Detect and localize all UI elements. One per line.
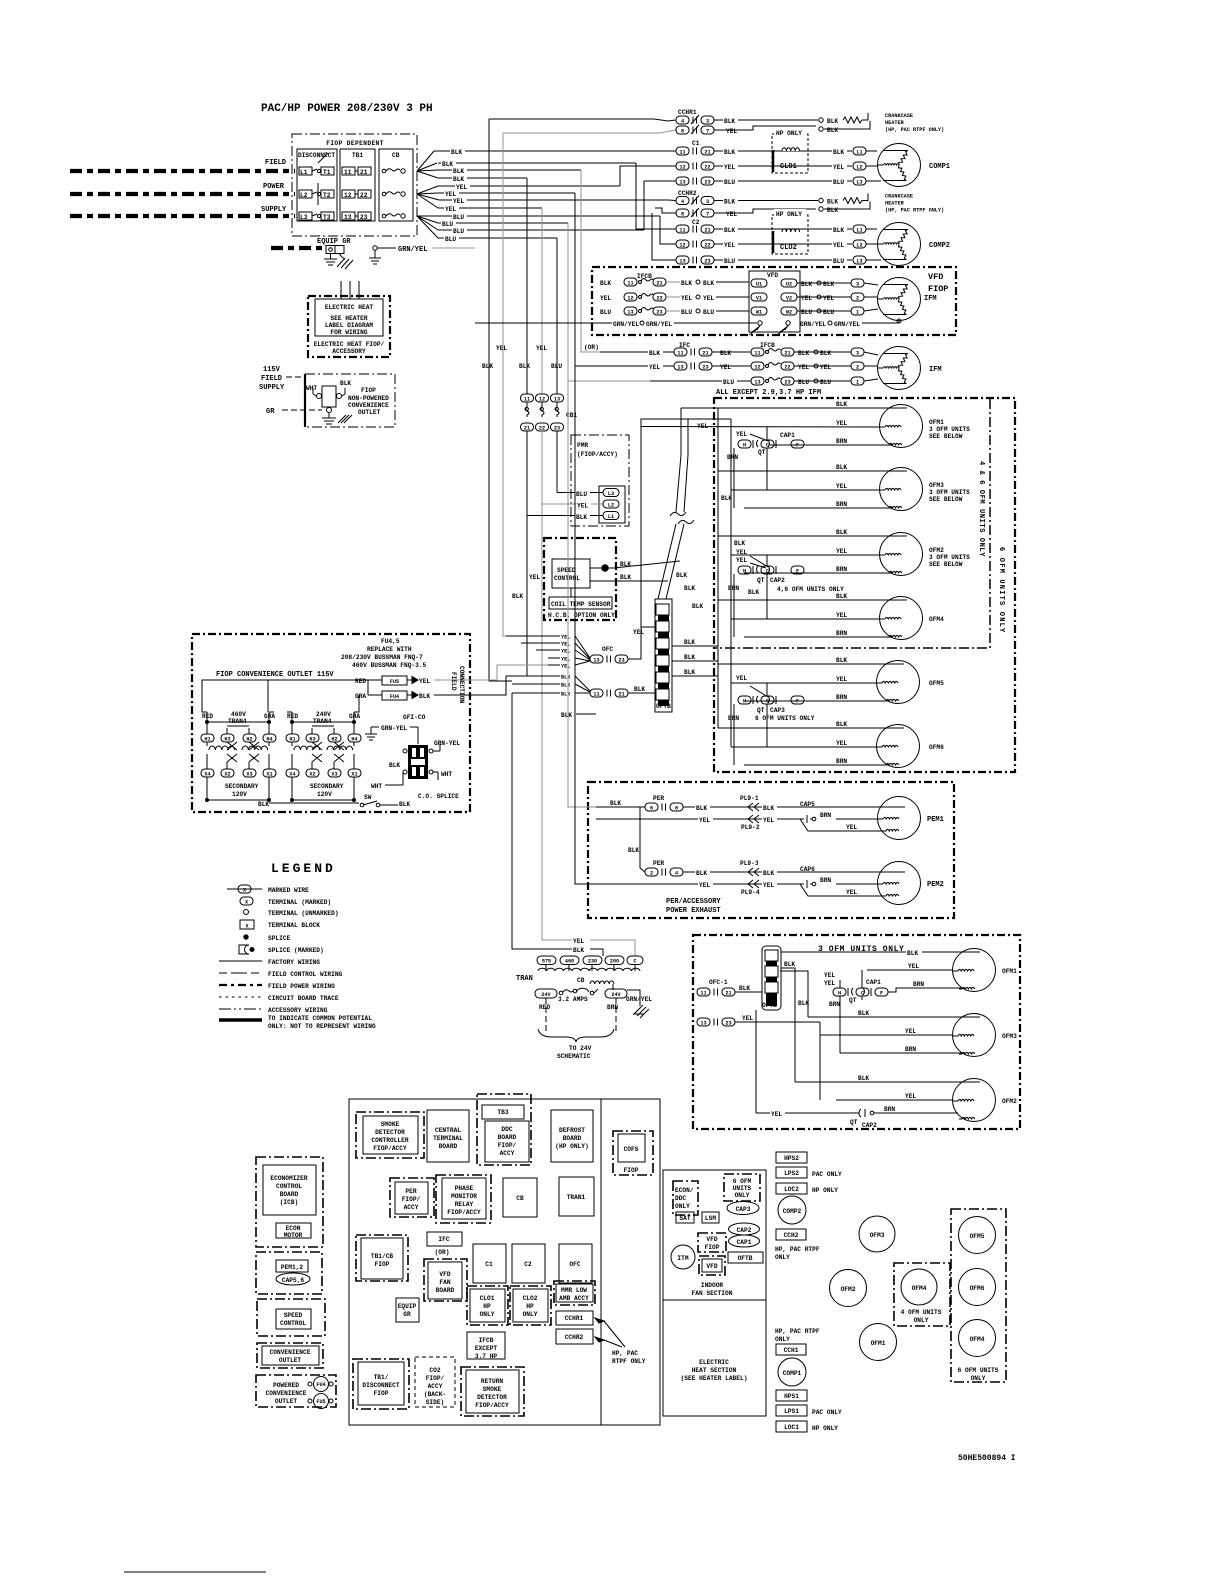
svg-text:BLK: BLK	[836, 721, 847, 728]
OFM1 circle	[860, 1324, 897, 1361]
svg-text:YEL: YEL	[573, 938, 584, 945]
svg-text:3: 3	[706, 118, 709, 124]
legend field power wiring	[219, 984, 262, 986]
svg-text:FIELD: FIELD	[450, 672, 457, 691]
svg-text:BLK: BLK	[573, 947, 584, 954]
svg-text:BLU: BLU	[600, 309, 611, 316]
svg-text:HEAT SECTION: HEAT SECTION	[692, 1367, 737, 1374]
LOC1	[776, 1421, 807, 1432]
svg-text:BLK: BLK	[833, 149, 844, 156]
svg-text:ACCY: ACCY	[500, 1150, 515, 1157]
svg-text:HP ONLY: HP ONLY	[776, 211, 802, 218]
svg-text:YEL: YEL	[736, 431, 747, 438]
svg-text:DDC: DDC	[675, 1195, 686, 1202]
svg-text:3.7 HP: 3.7 HP	[475, 1353, 498, 1360]
speed control inner box	[552, 559, 590, 588]
PER contact PEM1	[596, 806, 645, 808]
svg-text:SECONDARY: SECONDARY	[225, 783, 259, 790]
TB1 box	[340, 149, 375, 221]
svg-text:RED: RED	[539, 1004, 550, 1011]
wire row BLU 230	[438, 229, 644, 231]
svg-text:BLK: BLK	[453, 168, 464, 175]
wire YEL 208 to CCHR2-8	[655, 208, 676, 213]
svg-text:115V: 115V	[263, 366, 281, 374]
svg-text:HP, PAC RTPF: HP, PAC RTPF	[775, 1246, 820, 1253]
CAP1 oval	[729, 1235, 760, 1247]
wire row BLU 238	[438, 237, 557, 239]
VFD FIOP dashed	[698, 1233, 726, 1252]
CB poles	[382, 169, 405, 218]
svg-text:MMR LOW: MMR LOW	[561, 1287, 587, 1294]
svg-text:YEL: YEL	[600, 295, 611, 302]
wire row BLK 170	[438, 169, 581, 171]
svg-text:QT: QT	[757, 707, 765, 714]
svg-text:BLK: BLK	[820, 350, 831, 357]
svg-text:FIOP: FIOP	[705, 1244, 720, 1251]
primary winding coil	[538, 968, 640, 971]
svg-text:BLK: BLK	[399, 801, 410, 808]
svg-text:BLU: BLU	[576, 491, 587, 498]
svg-text:TB1/: TB1/	[374, 1374, 389, 1381]
svg-text:H: H	[838, 990, 841, 996]
svg-text:PAC ONLY: PAC ONLY	[812, 1171, 842, 1178]
fan motor OFM3-3	[953, 1014, 996, 1057]
wire 22 down to L2 and below	[542, 431, 572, 940]
FIOP convenience outlet dashed box	[192, 634, 470, 812]
svg-text:SPLICE: SPLICE	[268, 935, 291, 942]
wire row BLK 163	[438, 162, 636, 164]
svg-text:BLK: BLK	[610, 800, 621, 807]
svg-text:U2: U2	[786, 281, 792, 287]
svg-text:12: 12	[679, 164, 685, 170]
svg-text:POWERED: POWERED	[273, 1382, 299, 1389]
wire buses in OFM box	[717, 408, 719, 728]
fan motor OFM5	[877, 661, 920, 704]
speed control dashed box	[257, 1299, 325, 1336]
svg-text:FOR WIRING: FOR WIRING	[330, 329, 367, 336]
svg-text:ECONOMIZER: ECONOMIZER	[270, 1175, 307, 1182]
svg-text:TRAN: TRAN	[516, 975, 533, 983]
svg-text:H1: H1	[289, 736, 295, 742]
svg-text:22: 22	[360, 192, 368, 199]
svg-text:RELAY: RELAY	[455, 1201, 474, 1208]
svg-text:23: 23	[554, 425, 560, 431]
svg-text:YEL: YEL	[561, 657, 570, 663]
wire v6 down to transformer BLK	[512, 693, 572, 949]
svg-text:INDOOR: INDOOR	[701, 1282, 724, 1289]
svg-text:YEL: YEL	[699, 882, 710, 889]
svg-text:EQUIP GR: EQUIP GR	[317, 238, 351, 246]
svg-text:YEL: YEL	[736, 557, 747, 564]
svg-text:CCH2: CCH2	[784, 1232, 799, 1239]
svg-text:TERMINAL BLOCK: TERMINAL BLOCK	[268, 922, 320, 929]
svg-text:CAP1: CAP1	[780, 432, 795, 439]
transformer TRAN primary taps	[537, 956, 643, 965]
svg-text:13: 13	[677, 364, 683, 370]
svg-text:X4: X4	[204, 771, 210, 777]
defrost board	[551, 1110, 593, 1162]
svg-text:BLK: BLK	[823, 281, 834, 288]
svg-text:H3: H3	[224, 736, 230, 742]
svg-text:11: 11	[677, 350, 683, 356]
OFM3 circle	[859, 1216, 895, 1252]
svg-text:FIOP DEPENDENT: FIOP DEPENDENT	[326, 140, 384, 147]
DISCONNECT box	[297, 149, 337, 221]
svg-text:3: 3	[856, 281, 859, 287]
svg-text:BLK: BLK	[721, 495, 732, 502]
svg-text:COMP1: COMP1	[783, 1370, 802, 1377]
vertical v644 to C1 BLU row	[644, 181, 676, 230]
wire row BLU 216	[438, 215, 660, 217]
fuse FU5 circle	[308, 1399, 312, 1403]
terminal block OFTB2	[762, 946, 781, 1010]
wire row BLU 223	[438, 222, 568, 224]
svg-text:PEM1: PEM1	[927, 816, 944, 824]
legend factory wiring	[219, 960, 262, 962]
svg-text:BRN: BRN	[836, 694, 847, 701]
PEM dashed box	[256, 1252, 322, 1294]
svg-text:PL9-4: PL9-4	[741, 889, 760, 896]
svg-text:PHASE: PHASE	[455, 1185, 474, 1192]
svg-text:12: 12	[754, 364, 760, 370]
svg-text:BOARD: BOARD	[280, 1191, 299, 1198]
field power supply thick dashed lines	[70, 169, 295, 173]
fan motor OFM3	[880, 468, 923, 511]
IFC	[427, 1232, 462, 1246]
svg-text:BLU: BLU	[820, 379, 831, 386]
feed wires into box	[568, 381, 596, 807]
ITM circle	[671, 1245, 695, 1269]
svg-text:X2: X2	[224, 771, 230, 777]
svg-text:7: 7	[706, 211, 709, 217]
svg-text:OFM4: OFM4	[912, 1285, 927, 1292]
svg-text:YEL: YEL	[742, 1015, 753, 1022]
svg-text:C: C	[766, 442, 769, 448]
svg-text:21: 21	[702, 350, 708, 356]
svg-text:(FIOP/ACCY): (FIOP/ACCY)	[577, 451, 618, 458]
svg-text:BLK: BLK	[724, 118, 735, 125]
cable break risers	[658, 524, 684, 599]
svg-text:OFM1: OFM1	[871, 1340, 886, 1347]
svg-text:SEE BELOW: SEE BELOW	[929, 496, 963, 503]
svg-text:BLK: BLK	[561, 683, 571, 689]
6 OFM units only dashed	[724, 1174, 760, 1201]
svg-text:NON-POWERED: NON-POWERED	[348, 395, 389, 402]
svg-text:GRN/YEL: GRN/YEL	[613, 321, 639, 328]
vertical v660 to C2 YEL row	[660, 216, 676, 244]
svg-text:L1: L1	[300, 169, 308, 176]
svg-text:BLK: BLK	[482, 363, 493, 370]
svg-text:BLU: BLU	[801, 309, 812, 316]
svg-text:YEL: YEL	[908, 963, 919, 970]
svg-text:SIDE): SIDE)	[426, 1399, 445, 1406]
svg-text:YEL: YEL	[561, 635, 570, 641]
svg-text:C: C	[766, 698, 769, 704]
TB1/DISCONNECT FIOP	[353, 1359, 409, 1409]
svg-text:OFC: OFC	[569, 1261, 580, 1268]
svg-text:HP: HP	[526, 1303, 534, 1310]
svg-text:PER: PER	[653, 795, 664, 802]
svg-text:HEATER: HEATER	[885, 120, 905, 126]
svg-text:IFCB: IFCB	[479, 1337, 494, 1344]
svg-text:CRANKCASE: CRANKCASE	[885, 113, 913, 119]
capacitor CAP2 bottom	[756, 1112, 855, 1114]
legend marked wire	[227, 888, 262, 890]
svg-text:OFM3: OFM3	[1002, 1033, 1017, 1040]
svg-text:L2: L2	[856, 242, 862, 248]
svg-text:OFM5: OFM5	[970, 1233, 985, 1240]
svg-text:BLU: BLU	[442, 221, 453, 228]
svg-text:TB1/CB: TB1/CB	[371, 1253, 394, 1260]
svg-text:CLO1: CLO1	[480, 1295, 495, 1302]
svg-text:FIOP/: FIOP/	[402, 1196, 421, 1203]
svg-text:BLK: BLK	[836, 593, 847, 600]
GRN/YEL terminal	[373, 246, 377, 250]
svg-text:PL9-1: PL9-1	[740, 795, 759, 802]
svg-text:BLK: BLK	[696, 870, 707, 877]
svg-text:ACCY: ACCY	[428, 1383, 443, 1390]
svg-text:YEL: YEL	[419, 678, 430, 685]
svg-text:WHT: WHT	[306, 385, 317, 392]
fan motor OFM4	[880, 597, 923, 640]
svg-text:8: 8	[681, 128, 684, 134]
legend terminal unmarked	[244, 910, 249, 915]
svg-text:ONLY: ONLY	[971, 1375, 986, 1382]
svg-text:YEL: YEL	[771, 1111, 782, 1118]
LSM box	[702, 1212, 719, 1223]
svg-text:MOTOR: MOTOR	[284, 1232, 303, 1239]
svg-text:BRN: BRN	[836, 566, 847, 573]
svg-text:GR: GR	[266, 408, 275, 416]
svg-text:HP ONLY: HP ONLY	[776, 130, 802, 137]
svg-text:YEL: YEL	[763, 882, 774, 889]
svg-text:2: 2	[856, 364, 859, 370]
svg-text:YEL: YEL	[699, 817, 710, 824]
vertical v581 to IFC BLK row	[581, 170, 600, 352]
svg-text:CCHR2: CCHR2	[565, 1334, 584, 1341]
svg-text:BLU: BLU	[833, 179, 844, 186]
CCHR1 layout	[556, 1311, 593, 1325]
svg-text:FIOP CONVENIENCE OUTLET 115V: FIOP CONVENIENCE OUTLET 115V	[216, 671, 334, 679]
svg-text:TB3: TB3	[497, 1109, 508, 1116]
svg-text:6 OFM UNITS ONLY: 6 OFM UNITS ONLY	[997, 547, 1005, 633]
svg-text:BLK: BLK	[620, 574, 631, 581]
svg-text:FU4: FU4	[390, 694, 399, 700]
svg-text:H3: H3	[309, 736, 315, 742]
svg-text:C: C	[766, 568, 769, 574]
svg-text:YEL: YEL	[836, 676, 847, 683]
svg-text:SPEED: SPEED	[557, 567, 576, 574]
svg-text:OFTB: OFTB	[738, 1255, 753, 1262]
svg-text:PEM1,2: PEM1,2	[281, 1264, 304, 1271]
svg-text:HP ONLY: HP ONLY	[812, 1187, 838, 1194]
PER FIOP/ACCY	[390, 1178, 434, 1217]
svg-text:BRN: BRN	[836, 501, 847, 508]
svg-text:MARKED WIRE: MARKED WIRE	[268, 887, 309, 894]
svg-text:BLK: BLK	[724, 149, 735, 156]
svg-text:21: 21	[656, 280, 662, 286]
svg-text:ONLY: ONLY	[914, 1317, 929, 1324]
second ground	[339, 254, 345, 260]
svg-text:OFM2: OFM2	[929, 547, 944, 554]
svg-text:4: 4	[681, 199, 684, 205]
svg-text:C2: C2	[692, 219, 700, 226]
svg-text:DEFROST: DEFROST	[559, 1127, 585, 1134]
svg-text:BLK: BLK	[734, 540, 745, 547]
FIOP DEPENDENT dashed box	[292, 134, 417, 236]
svg-text:23: 23	[656, 309, 662, 315]
CO2 FIOP/ACCY backside	[415, 1357, 455, 1407]
svg-text:CRANKCASE: CRANKCASE	[885, 194, 913, 200]
svg-text:BRN: BRN	[884, 1106, 895, 1113]
OFM6 circle	[959, 1269, 996, 1306]
overload CLO2 HP ONLY box	[772, 215, 808, 254]
vertical v620 to C1 YEL row	[620, 166, 676, 186]
svg-text:RED: RED	[202, 713, 213, 720]
svg-text:4: 4	[681, 118, 684, 124]
svg-text:21: 21	[704, 149, 710, 155]
svg-text:YEL: YEL	[726, 128, 737, 135]
svg-text:C1: C1	[692, 140, 700, 147]
svg-text:11: 11	[524, 396, 530, 402]
svg-text:YEL: YEL	[633, 629, 644, 636]
svg-text:BRN: BRN	[836, 758, 847, 765]
svg-text:FIOP: FIOP	[624, 1167, 639, 1174]
C2	[512, 1244, 545, 1283]
svg-text:FU4,5: FU4,5	[381, 638, 400, 645]
arrows to HP PAC RTPF only	[595, 1318, 604, 1323]
svg-text:IFCB: IFCB	[760, 342, 775, 349]
svg-text:13: 13	[627, 309, 633, 315]
diag YEL row200 to CCHR2	[668, 199, 676, 202]
legend splice	[244, 935, 248, 939]
svg-text:COMP2: COMP2	[929, 242, 950, 250]
svg-text:V2: V2	[786, 295, 792, 301]
svg-text:SW: SW	[364, 794, 372, 801]
svg-text:W2: W2	[786, 309, 792, 315]
svg-text:CAP1: CAP1	[737, 1239, 752, 1246]
svg-text:C: C	[633, 959, 636, 965]
svg-text:YEL: YEL	[836, 612, 847, 619]
vertical v527 to CB1	[526, 178, 528, 394]
svg-text:BLU: BLU	[551, 363, 562, 370]
motor IFM VFD	[878, 278, 921, 321]
svg-text:YEL: YEL	[561, 649, 570, 655]
svg-text:YEL: YEL	[561, 642, 570, 648]
svg-text:BLU: BLU	[681, 309, 692, 316]
svg-text:YEL: YEL	[905, 1028, 916, 1035]
svg-text:13: 13	[754, 379, 760, 385]
svg-text:X1: X1	[351, 771, 357, 777]
svg-text:YEL: YEL	[703, 295, 714, 302]
LPS2	[776, 1167, 807, 1178]
equip gr layout	[396, 1298, 419, 1322]
svg-text:SEE BELOW: SEE BELOW	[929, 561, 963, 568]
svg-text:QT: QT	[849, 997, 857, 1004]
svg-text:LABEL DIAGRAM: LABEL DIAGRAM	[325, 322, 374, 329]
svg-text:YEL: YEL	[824, 972, 835, 979]
svg-text:H: H	[743, 568, 746, 574]
wire row YEL 193	[438, 192, 575, 194]
svg-text:CAP3: CAP3	[736, 1206, 751, 1213]
svg-text:24V: 24V	[611, 992, 621, 998]
svg-text:21: 21	[704, 227, 710, 233]
svg-text:FIOP: FIOP	[375, 1261, 390, 1268]
svg-text:13: 13	[679, 179, 685, 185]
svg-text:6 OFM UNITS: 6 OFM UNITS	[958, 1367, 999, 1374]
svg-text:PL9-3: PL9-3	[740, 860, 759, 867]
svg-text:(HP ONLY): (HP ONLY)	[555, 1143, 588, 1150]
svg-text:UNITS: UNITS	[733, 1185, 752, 1192]
svg-text:X1: X1	[266, 771, 272, 777]
TB3	[477, 1094, 531, 1165]
svg-text:BLK: BLK	[512, 593, 523, 600]
svg-text:23: 23	[618, 657, 624, 663]
svg-text:BLK: BLK	[827, 127, 838, 134]
svg-text:CONVENIENCE: CONVENIENCE	[348, 402, 389, 409]
svg-text:BLK: BLK	[801, 281, 812, 288]
outlet receptacle	[322, 386, 336, 407]
svg-text:FAN: FAN	[439, 1279, 450, 1286]
svg-text:BLK: BLK	[451, 149, 462, 156]
svg-text:BLU: BLU	[724, 258, 735, 265]
motor COMP1	[878, 144, 921, 187]
svg-text:ACCESSORY: ACCESSORY	[332, 348, 366, 355]
svg-text:7: 7	[706, 128, 709, 134]
svg-text:YEL: YEL	[445, 206, 456, 213]
svg-text:(OR): (OR)	[435, 1249, 450, 1256]
svg-text:460: 460	[565, 959, 574, 965]
breaker CB1	[521, 394, 534, 402]
CAP3 oval	[727, 1202, 759, 1215]
svg-text:YEL: YEL	[798, 364, 809, 371]
indoor fan section box	[663, 1170, 766, 1416]
svg-text:DISCONNECT: DISCONNECT	[362, 1382, 399, 1389]
svg-text:BLK: BLK	[763, 870, 774, 877]
svg-text:H4: H4	[351, 736, 357, 742]
L1 T1 terminals	[299, 167, 334, 176]
svg-text:SUPPLY: SUPPLY	[261, 206, 287, 214]
svg-text:FIOP: FIOP	[928, 284, 948, 294]
svg-text:ELECTRIC HEAT: ELECTRIC HEAT	[325, 304, 374, 311]
svg-text:YEL: YEL	[577, 503, 588, 510]
svg-text:OFM6: OFM6	[929, 744, 944, 751]
CCH1	[776, 1344, 806, 1355]
svg-text:FIOP: FIOP	[374, 1390, 389, 1397]
svg-text:CAP5: CAP5	[800, 801, 815, 808]
legend terminal block	[240, 920, 254, 929]
svg-text:ONLY: ONLY	[735, 1192, 750, 1199]
svg-text:23: 23	[704, 258, 710, 264]
svg-text:CLO1: CLO1	[780, 163, 797, 171]
vertical v636 to C2 BLK row	[636, 163, 676, 229]
svg-text:CONTROLLER: CONTROLLER	[371, 1137, 408, 1144]
svg-text:6 OFM UNITS ONLY: 6 OFM UNITS ONLY	[755, 715, 815, 722]
svg-text:ACCY: ACCY	[404, 1204, 419, 1211]
svg-text:BLK: BLK	[836, 657, 847, 664]
svg-text:BRN: BRN	[905, 1046, 916, 1053]
svg-text:TO INDICATE COMMON POTENTIAL: TO INDICATE COMMON POTENTIAL	[268, 1015, 372, 1022]
wire buses in 3 OFM box	[780, 971, 808, 1017]
svg-text:LOC2: LOC2	[784, 1186, 799, 1193]
svg-text:ECON: ECON	[286, 1225, 301, 1232]
svg-text:BLK: BLK	[681, 280, 692, 287]
motor COMP2	[878, 223, 921, 266]
6 OFM units dashed box right	[951, 1209, 1006, 1382]
svg-text:IFC: IFC	[438, 1236, 449, 1243]
svg-text:BLK: BLK	[519, 363, 530, 370]
svg-text:L2: L2	[300, 192, 308, 199]
